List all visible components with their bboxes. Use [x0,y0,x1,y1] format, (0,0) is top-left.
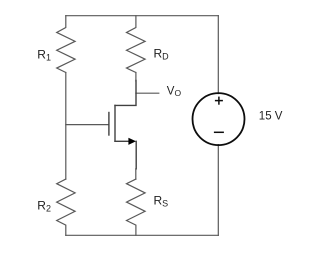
wire RD to drain [135,73,137,82]
wire output tap to Vo [136,92,159,94]
wire left rail middle (R1 to R2, gate tap junction) [65,73,67,180]
resistor R2 [57,179,75,235]
svg-text:RD: RD [154,47,170,62]
plus sign [215,97,223,105]
wire right rail upper [217,16,219,94]
resistor R1 [57,16,75,73]
minus sign [214,131,224,133]
transistor Q1 NMOS [109,81,136,169]
resistor RS [127,179,146,235]
wire source down-lead [135,141,137,169]
channel [114,105,116,141]
wire gate lead from left rail [66,124,109,126]
source lead [115,140,129,142]
resistor RD [127,16,146,73]
svg-text:R2: R2 [37,199,51,214]
svg-text:VO: VO [167,85,182,98]
gate bar [108,113,110,136]
wire bottom rail [66,234,219,236]
wire source to RS [135,169,137,179]
svg-text:RS: RS [154,194,169,209]
drain lead elbow [115,81,136,106]
voltage source V1 circle [193,93,245,145]
wire top rail VDD [66,15,219,17]
source arrow [128,138,136,145]
wire right rail lower [217,145,219,236]
svg-text:R1: R1 [37,48,51,63]
svg-text:15 V: 15 V [259,111,283,123]
